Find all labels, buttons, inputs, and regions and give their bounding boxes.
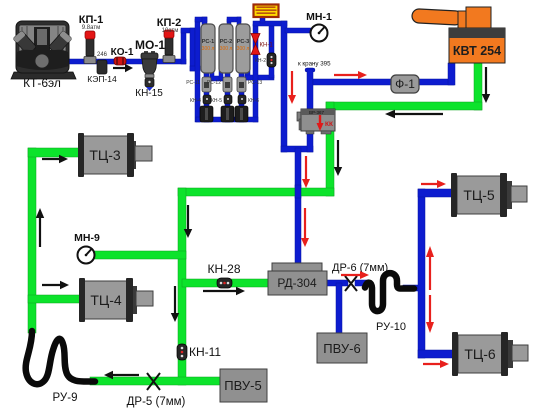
svg-text:МН-1: МН-1 bbox=[306, 11, 332, 23]
wire serpentine riser 1 bbox=[181, 29, 186, 64]
svg-text:РС-1: РС-1 bbox=[202, 39, 214, 45]
svg-text:300 л: 300 л bbox=[237, 46, 250, 52]
pressure switch chain under RS-1 bbox=[186, 77, 213, 122]
wire long riser to RS-1 bbox=[195, 19, 200, 122]
wire top link to RS-1 bbox=[195, 17, 207, 22]
svg-text:РД-304: РД-304 bbox=[277, 276, 317, 290]
wire U bottom link bbox=[281, 146, 313, 152]
wire RS-1 to RS-2 U left bbox=[210, 71, 214, 80]
svg-text:ДР-5 (7мм): ДР-5 (7мм) bbox=[127, 396, 186, 408]
wire stub to crane 395 bbox=[305, 68, 315, 72]
black arrow down central vertical upper bbox=[184, 205, 192, 238]
wire RD-304 outlet bbox=[325, 280, 348, 286]
wire RS-3 outlet bottom bbox=[245, 75, 274, 80]
black arrow KN-28 line bbox=[203, 287, 245, 295]
wire RS-2 to RS-3 top bridge bbox=[227, 17, 241, 22]
svg-text:РУ-9: РУ-9 bbox=[53, 392, 78, 404]
pressure regulator RD-304 bbox=[268, 263, 327, 295]
black arrow after KO-1 bbox=[113, 64, 133, 72]
safety valve KP-2 bbox=[157, 17, 181, 63]
red arrow right TC-6 bbox=[423, 360, 449, 368]
wire PVU-6 drop bbox=[336, 283, 342, 333]
svg-text:МО-1: МО-1 bbox=[135, 38, 165, 52]
svg-text:ПВУ-6: ПВУ-6 bbox=[323, 341, 360, 356]
wire RS-1 drain leg bbox=[204, 71, 209, 122]
pressure switch PVU-5 bbox=[220, 369, 267, 402]
svg-text:300 л: 300 л bbox=[202, 46, 215, 52]
svg-text:КН-11: КН-11 bbox=[189, 345, 221, 359]
manometer MN-9 bbox=[74, 232, 100, 264]
wire RS-1 inlet drop bbox=[202, 17, 207, 27]
red arrow right crane line bbox=[334, 71, 367, 79]
pressure switch chain under RS-3 bbox=[235, 77, 262, 122]
wire KVT green down leg bbox=[474, 63, 482, 110]
reservoir RS-3 bbox=[236, 24, 250, 73]
wire RS-1 to RS-2 U right bbox=[219, 71, 223, 80]
black arrow down KVT green leg bbox=[482, 67, 490, 103]
svg-text:КН-15: КН-15 bbox=[135, 88, 163, 99]
svg-text:300 л: 300 л bbox=[220, 46, 233, 52]
svg-text:КК: КК bbox=[325, 121, 333, 128]
wire RS-1 to RS-2 U bottom bbox=[210, 76, 223, 81]
wire bottom green horizontal bbox=[90, 377, 222, 385]
wire long green horizontal bbox=[178, 188, 334, 196]
wire stub to info plate bbox=[260, 15, 265, 23]
safety valve KP-1 bbox=[79, 14, 103, 64]
wire TC-3 feed bbox=[28, 148, 80, 157]
wire KN-2 column bbox=[269, 24, 274, 78]
svg-text:РС-11: РС-11 bbox=[186, 80, 200, 86]
brake cylinder TC-5 bbox=[451, 173, 527, 217]
wire TC-4 feed bbox=[28, 295, 84, 303]
black arrow down beside green vertical bbox=[334, 140, 342, 176]
svg-text:КН-6: КН-6 bbox=[248, 98, 259, 104]
svg-text:КН-28: КН-28 bbox=[208, 262, 241, 276]
svg-text:МН-9: МН-9 bbox=[74, 232, 100, 244]
wire TC-5 feed bbox=[418, 189, 454, 197]
svg-text:РС-3: РС-3 bbox=[237, 39, 249, 45]
wire drop to RD-304 bbox=[295, 148, 301, 264]
brake cylinder TC-4 bbox=[79, 278, 153, 322]
pressure switch PVU-6 bbox=[317, 333, 367, 363]
svg-text:Ф-1: Ф-1 bbox=[395, 77, 415, 91]
red arrow right TC-5 bbox=[421, 180, 446, 188]
wire KVT green horizontal bbox=[326, 102, 482, 110]
hose RU-10 bbox=[365, 273, 414, 333]
svg-text:КТ-6эл: КТ-6эл bbox=[23, 76, 61, 90]
svg-text:РС-12: РС-12 bbox=[207, 80, 221, 86]
svg-text:ТЦ-5: ТЦ-5 bbox=[463, 187, 495, 203]
svg-text:КН-4: КН-4 bbox=[190, 98, 201, 104]
svg-text:ТЦ-4: ТЦ-4 bbox=[90, 292, 122, 308]
restrictor DR-6 bbox=[332, 262, 388, 291]
wire MN-1 branch bbox=[285, 28, 312, 33]
info plate (yellow) bbox=[254, 5, 279, 18]
wire DR-6 outlet bbox=[355, 280, 368, 286]
wire top manifold bbox=[253, 21, 287, 26]
wire drop to RD-304 over green bbox=[295, 185, 301, 198]
valve KN-2 bbox=[255, 53, 276, 67]
svg-text:КО-1: КО-1 bbox=[111, 47, 134, 58]
wire KVT down leg bbox=[448, 63, 455, 85]
wire main vertical 1 bbox=[281, 21, 287, 152]
wire RS-3 drain leg bbox=[239, 71, 244, 122]
black arrow down central vertical lower bbox=[171, 286, 179, 322]
wire RS-2 drain leg bbox=[225, 71, 230, 122]
reservoir RS-1 bbox=[201, 24, 215, 73]
svg-text:РУ-10: РУ-10 bbox=[376, 321, 406, 333]
red arrow down to RD upper bbox=[302, 156, 310, 188]
wire serpentine bottom link bbox=[190, 66, 200, 71]
wire right main vertical bbox=[418, 189, 425, 358]
brake valve KVT 254 bbox=[412, 7, 505, 63]
red arrow down main vertical 1 bbox=[288, 71, 296, 104]
pressure switch chain under RS-2 bbox=[207, 77, 234, 122]
manometer MN-1 bbox=[306, 11, 332, 42]
filter F-1 bbox=[391, 75, 419, 93]
valve KN-11 bbox=[177, 344, 221, 360]
brake cylinder TC-6 bbox=[452, 332, 528, 376]
oil separator MO-1 bbox=[135, 38, 165, 99]
wire drain manifold bbox=[196, 117, 258, 122]
air distributor VR-367 bbox=[297, 109, 335, 134]
check valve KO-1 bbox=[111, 47, 134, 65]
wire RU-10 to main bbox=[403, 285, 422, 291]
wire TC-6 feed bbox=[418, 350, 456, 358]
svg-text:РС-2: РС-2 bbox=[220, 39, 232, 45]
wire serpentine drop 1 bbox=[190, 28, 195, 71]
svg-text:КН-2: КН-2 bbox=[255, 58, 266, 64]
PIPES-BLUE bbox=[64, 15, 456, 358]
svg-text:ТЦ-3: ТЦ-3 bbox=[89, 147, 121, 163]
svg-text:КН-5: КН-5 bbox=[211, 98, 222, 104]
wire central green vertical bbox=[178, 188, 186, 385]
valve KN-1 bbox=[251, 34, 273, 55]
black arrow TC-4 feed bbox=[42, 281, 69, 289]
svg-text:КЭП-14: КЭП-14 bbox=[87, 74, 117, 84]
valve KN-28 bbox=[208, 262, 241, 288]
svg-text:ПВУ-5: ПВУ-5 bbox=[224, 378, 261, 393]
wire KN-1 column bbox=[253, 24, 258, 122]
wire F-1 line bbox=[313, 79, 454, 85]
wire main delivery pipe bbox=[64, 59, 186, 64]
reservoir RS-2 bbox=[219, 24, 233, 73]
svg-text:ВР-367: ВР-367 bbox=[309, 110, 325, 115]
black arrow TC-3 feed bbox=[42, 155, 68, 163]
PIPES-GREEN bbox=[28, 63, 482, 385]
wire RS-3 outlet drop bbox=[245, 71, 250, 80]
svg-text:КВТ 254: КВТ 254 bbox=[453, 44, 501, 58]
electropneumatic valve KEP-14 bbox=[87, 52, 117, 84]
red arrow down right vertical bbox=[426, 295, 434, 333]
red arrow down to RD lower bbox=[301, 208, 309, 247]
svg-text:КН-1: КН-1 bbox=[260, 43, 274, 49]
svg-text:9.8атм: 9.8атм bbox=[82, 25, 100, 31]
svg-text:РС-13: РС-13 bbox=[248, 80, 262, 86]
wire MN-9 branch bbox=[92, 251, 186, 259]
wire left green vertical bbox=[28, 148, 36, 333]
wire RS-2 to RS-3 top right bbox=[237, 17, 241, 27]
wire KN-28 branch to RD-304 bbox=[182, 279, 270, 287]
wire serpentine top 1 bbox=[181, 28, 195, 33]
svg-text:10атм: 10атм bbox=[162, 28, 179, 34]
hose RU-9 bbox=[26, 331, 95, 404]
red arrow right DR-6 bbox=[341, 271, 369, 279]
compressor KT-6el bbox=[11, 21, 76, 90]
svg-text:246: 246 bbox=[97, 52, 108, 58]
svg-text:ТЦ-6: ТЦ-6 bbox=[464, 346, 496, 362]
brake cylinder TC-3 bbox=[78, 133, 152, 177]
black arrow left above RU-9 bbox=[104, 371, 139, 379]
black arrow left KVT green line bbox=[385, 110, 443, 118]
wire RS-2 to RS-3 top left bbox=[227, 19, 231, 27]
svg-text:к крану 395: к крану 395 bbox=[298, 61, 331, 68]
black arrow up left vertical bbox=[36, 208, 44, 247]
restrictor DR-5 bbox=[127, 373, 186, 408]
wire green vertical to long run bbox=[326, 102, 334, 196]
red arrow up right vertical bbox=[426, 246, 434, 290]
